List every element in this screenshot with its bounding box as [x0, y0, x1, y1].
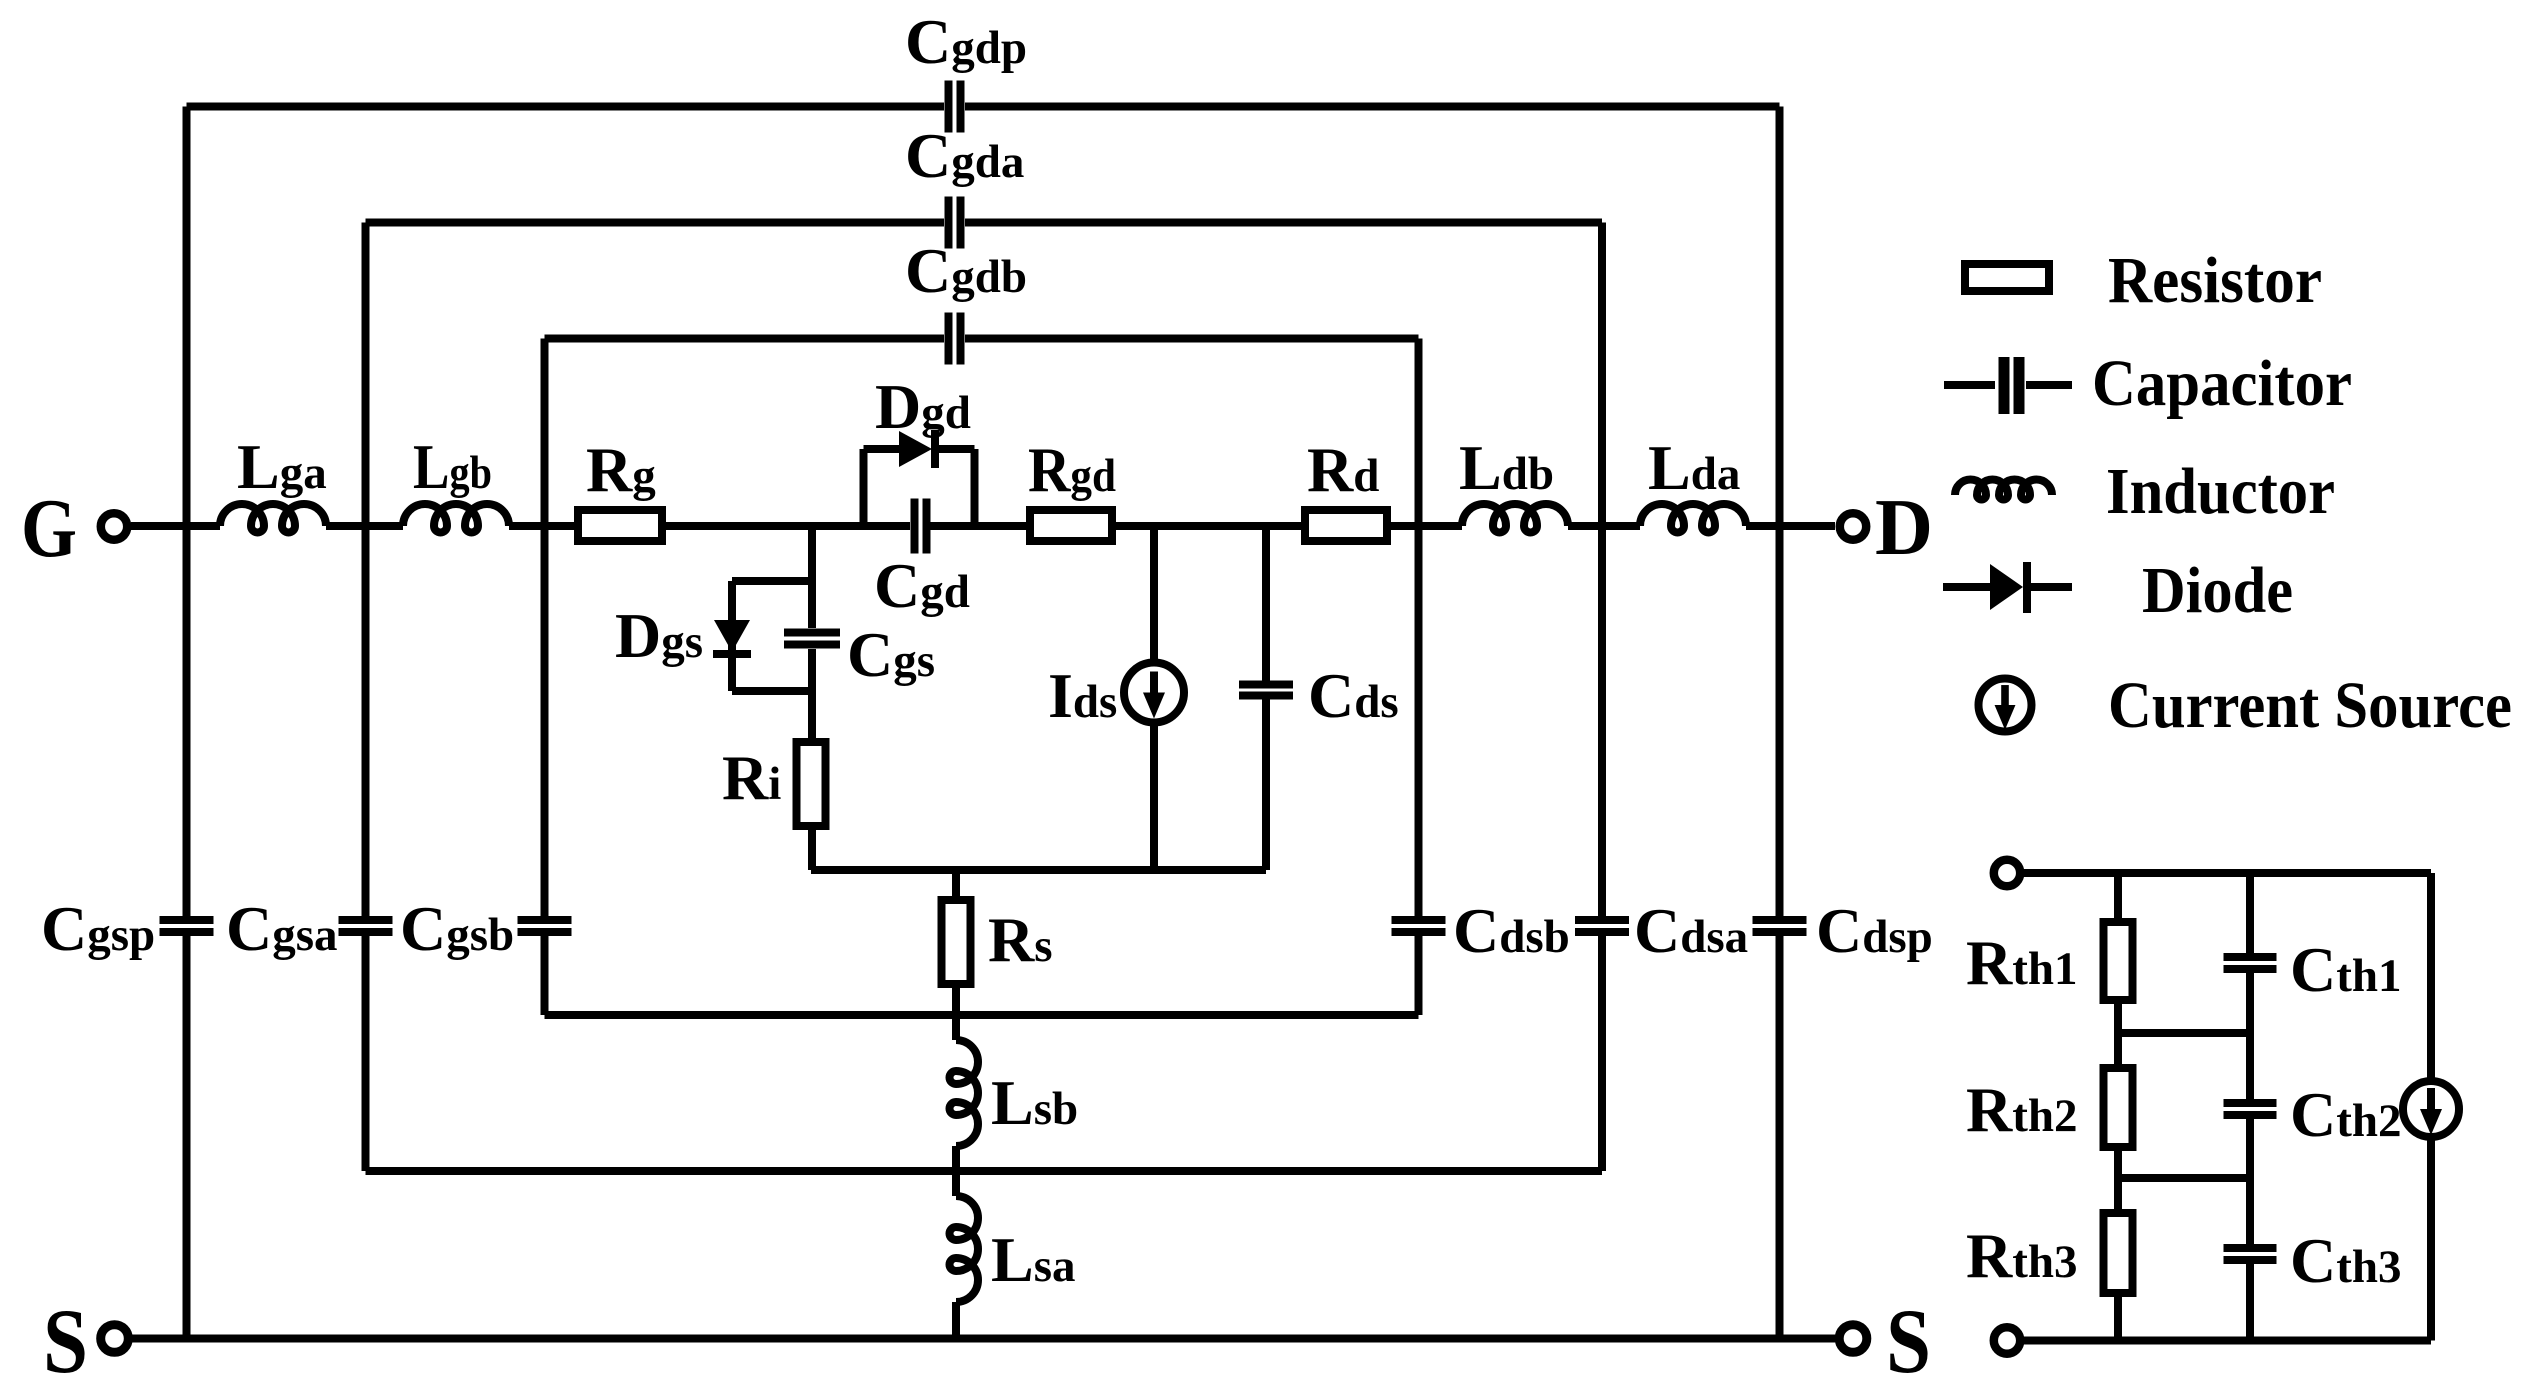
svg-text:Capacitor: Capacitor: [2092, 347, 2352, 420]
svg-text:Diode: Diode: [2142, 554, 2293, 627]
svg-text:S: S: [1886, 1290, 1931, 1389]
svg-text:S: S: [43, 1290, 88, 1389]
svg-text:G: G: [21, 482, 77, 575]
svg-text:Inductor: Inductor: [2106, 455, 2335, 528]
svg-text:D: D: [1875, 484, 1933, 572]
svg-text:Current Source: Current Source: [2108, 669, 2512, 742]
svg-text:Resistor: Resistor: [2108, 244, 2322, 317]
